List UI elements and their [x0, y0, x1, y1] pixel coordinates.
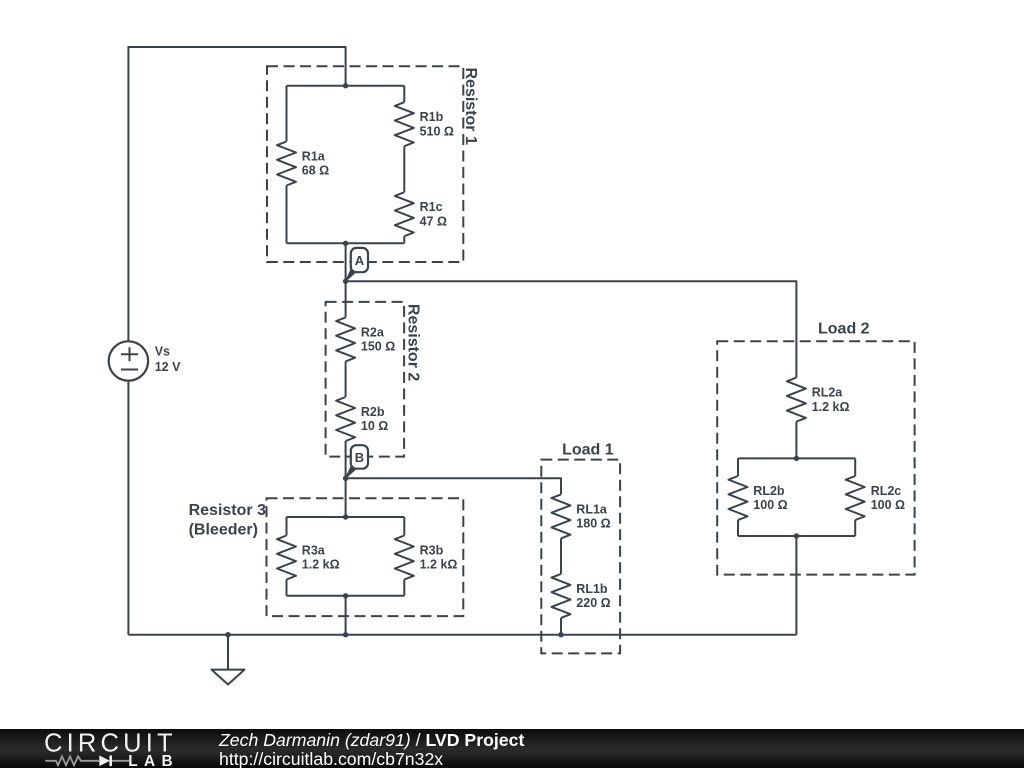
- resistor R3b: [395, 536, 414, 580]
- wire R3a leads: [286, 517, 288, 596]
- resistor RL1a: [552, 494, 571, 538]
- svg-text:R2b: R2b: [361, 405, 385, 419]
- junction node A: [343, 279, 348, 284]
- group box Resistor 3: [267, 498, 464, 616]
- wire top rail from source to Resistor 1 feed: [128, 47, 345, 341]
- wire R1 top rail: [287, 85, 405, 87]
- svg-text:R3a: R3a: [302, 544, 326, 558]
- svg-text:LAB: LAB: [128, 753, 179, 768]
- label R1b value: [420, 110, 454, 138]
- wire R2b to node B: [345, 441, 347, 478]
- voltage source plus sign: [121, 347, 138, 361]
- wire node B to Resistor 3: [345, 478, 347, 517]
- label R3a value: [302, 544, 340, 572]
- wire RL1a-RL1b lead: [560, 538, 562, 574]
- svg-text:(Bleeder): (Bleeder): [189, 522, 258, 539]
- wire R1 bottom to node A: [345, 243, 347, 281]
- svg-text:RL2b: RL2b: [753, 484, 785, 498]
- junction R1 bottom: [343, 241, 348, 246]
- svg-text:R1a: R1a: [302, 150, 326, 164]
- group box Load 1: [541, 460, 620, 654]
- wire Load2 top rail: [738, 457, 855, 459]
- footer bar: [0, 729, 1024, 768]
- junction Load2 top: [794, 456, 799, 461]
- node B badge tail: [346, 463, 358, 478]
- svg-text:180 Ω: 180 Ω: [576, 517, 610, 531]
- footer credit line 1: [219, 731, 524, 750]
- wire R3b leads: [403, 517, 405, 596]
- wire R3 top rail: [287, 516, 405, 518]
- junction ground tap: [225, 632, 230, 637]
- wire node A to R2a: [345, 281, 347, 317]
- svg-text:Resistor 1: Resistor 1: [462, 68, 479, 145]
- label RL1b value: [576, 582, 610, 610]
- junction R1 top: [343, 83, 348, 88]
- svg-text:RL2c: RL2c: [871, 484, 902, 498]
- resistor R1c: [395, 192, 414, 236]
- svg-text:100 Ω: 100 Ω: [753, 498, 787, 512]
- junction R3 top: [343, 514, 348, 519]
- junction R3 bus tap: [343, 632, 348, 637]
- svg-text:12 V: 12 V: [155, 360, 181, 374]
- node A badge tail: [346, 266, 358, 281]
- svg-text:510 Ω: 510 Ω: [420, 124, 454, 138]
- junction Load2 bottom: [794, 533, 799, 538]
- node B badge: [351, 445, 368, 469]
- wire Load2 to bus: [795, 536, 797, 635]
- label RL2c value: [871, 484, 905, 512]
- svg-text:Vs: Vs: [155, 345, 170, 359]
- svg-text:RL2a: RL2a: [812, 386, 844, 400]
- svg-text:100 Ω: 100 Ω: [871, 498, 905, 512]
- wire R1b-R1c middle lead: [403, 146, 405, 192]
- label R3b value: [420, 544, 458, 572]
- label R1a value: [302, 150, 329, 178]
- wire R1 bottom rail: [287, 242, 405, 244]
- wire R1a leads: [286, 86, 288, 244]
- svg-text:R1c: R1c: [420, 200, 443, 214]
- svg-text:Load 2: Load 2: [818, 321, 870, 338]
- wire RL2a to parallel rail: [795, 422, 797, 459]
- svg-text:Resistor 2: Resistor 2: [405, 304, 422, 381]
- wire RL2c leads: [854, 458, 856, 536]
- label R2a value: [361, 325, 395, 353]
- ground symbol triangle: [212, 670, 245, 685]
- node A badge: [351, 248, 368, 272]
- resistor R3a: [277, 536, 296, 580]
- wire RL1b to bus: [560, 618, 562, 635]
- junction Load1 bus: [558, 632, 563, 637]
- resistor RL2a: [787, 378, 806, 422]
- svg-text:10 Ω: 10 Ω: [361, 419, 388, 433]
- svg-text:Load 1: Load 1: [562, 442, 614, 459]
- CircuitLab logo: [0, 729, 200, 768]
- label R1c value: [420, 200, 447, 228]
- svg-text:R2a: R2a: [361, 325, 385, 339]
- svg-text:B: B: [355, 450, 364, 465]
- group box Resistor 1: [267, 66, 463, 262]
- wire R3 bottom to bus: [345, 596, 347, 635]
- junction R3 bottom: [343, 593, 348, 598]
- label RL2a value: [812, 386, 850, 414]
- label RL1a value: [576, 502, 610, 530]
- svg-text:1.2 kΩ: 1.2 kΩ: [302, 558, 340, 572]
- wire R2a-R2b lead: [345, 361, 347, 397]
- resistor RL2b: [729, 476, 748, 520]
- svg-text:R1b: R1b: [420, 110, 444, 124]
- svg-text:RL1b: RL1b: [576, 582, 608, 596]
- wire R1c bottom lead: [403, 236, 405, 243]
- resistor R1a: [277, 142, 296, 186]
- svg-text:1.2 kΩ: 1.2 kΩ: [812, 400, 850, 414]
- svg-text:47 Ω: 47 Ω: [420, 214, 447, 228]
- label RL2b value: [753, 484, 787, 512]
- wire bottom ground bus: [128, 634, 796, 636]
- label Vs: [155, 345, 181, 374]
- wire R1b top lead: [403, 86, 405, 103]
- voltage source Vs circle: [109, 341, 148, 380]
- resistor RL2c: [846, 476, 865, 520]
- resistor R2b: [336, 397, 355, 441]
- svg-text:1.2 kΩ: 1.2 kΩ: [420, 558, 458, 572]
- junction node B: [343, 476, 348, 481]
- group box Load 2: [717, 341, 914, 574]
- svg-text:RL1a: RL1a: [576, 502, 608, 516]
- svg-text:220 Ω: 220 Ω: [576, 596, 610, 610]
- label R2b value: [361, 405, 388, 433]
- wire node B to Load 1 branch: [346, 478, 561, 494]
- footer url line 2: [219, 750, 443, 768]
- ground stem: [227, 635, 229, 670]
- svg-text:68 Ω: 68 Ω: [302, 164, 329, 178]
- voltage source minus sign: [121, 369, 138, 371]
- svg-text:R3b: R3b: [420, 544, 444, 558]
- svg-text:Resistor 3: Resistor 3: [189, 502, 266, 519]
- wire Load2 bottom rail: [738, 535, 855, 537]
- resistor R2a: [336, 317, 355, 361]
- logo diode: [99, 755, 110, 766]
- group box Resistor 2: [326, 302, 405, 457]
- wire R3 bottom rail: [287, 595, 405, 597]
- wire left rail from source down to ground bus: [127, 381, 129, 635]
- logo resistor zigzag: [45, 756, 99, 765]
- resistor RL1b: [552, 574, 571, 618]
- wire node A to Load 2 branch: [346, 281, 797, 377]
- svg-text:150 Ω: 150 Ω: [361, 340, 395, 354]
- wire RL2b leads: [737, 458, 739, 536]
- svg-text:A: A: [355, 253, 365, 268]
- resistor R1b: [395, 102, 414, 146]
